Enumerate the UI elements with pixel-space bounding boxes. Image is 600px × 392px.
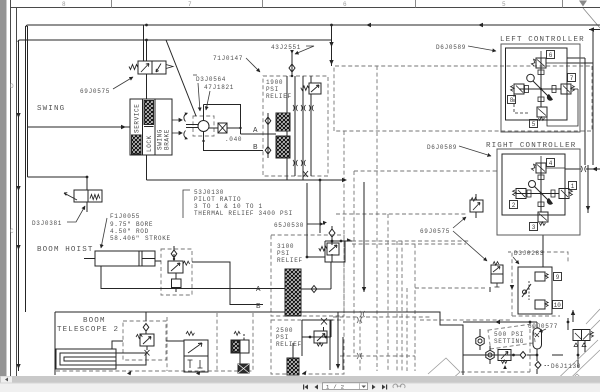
svg-text:7: 7: [188, 1, 192, 8]
svg-text:5: 5: [532, 121, 536, 128]
svg-text:RIGHT CONTROLLER: RIGHT CONTROLLER: [486, 142, 576, 150]
svg-text:4: 4: [549, 160, 553, 167]
svg-text:2500: 2500: [276, 327, 293, 334]
svg-text:B: B: [253, 144, 258, 152]
svg-text:D6J0589: D6J0589: [427, 144, 457, 151]
svg-text:47J1821: 47J1821: [204, 84, 234, 91]
svg-text:RELIEF: RELIEF: [266, 93, 292, 100]
svg-text:2: 2: [512, 202, 516, 209]
svg-text:SERVICE: SERVICE: [134, 104, 141, 133]
svg-text:69J0575: 69J0575: [420, 228, 450, 235]
svg-text:D3J0564: D3J0564: [196, 76, 226, 83]
svg-text:D3J0283: D3J0283: [514, 250, 544, 257]
svg-text:SWING: SWING: [37, 105, 65, 113]
svg-text:LOCK: LOCK: [146, 135, 153, 152]
svg-text:STROKE: STROKE: [145, 235, 171, 242]
svg-text:RELIEF: RELIEF: [277, 257, 303, 264]
svg-text:A: A: [253, 127, 258, 135]
svg-text:8: 8: [510, 97, 514, 104]
svg-text:.040: .040: [225, 136, 242, 143]
svg-text:BOOM: BOOM: [83, 317, 106, 325]
svg-text:69J0575: 69J0575: [80, 88, 110, 95]
svg-text:71J0147: 71J0147: [213, 55, 243, 62]
svg-text:SETTING: SETTING: [494, 338, 524, 345]
svg-text:1 / 2: 1 / 2: [326, 383, 345, 390]
svg-text:43J2551: 43J2551: [271, 44, 301, 51]
svg-text:65J0530: 65J0530: [274, 222, 304, 229]
svg-text:6: 6: [549, 52, 553, 59]
svg-text:C: C: [10, 228, 14, 235]
svg-text:BORE: BORE: [136, 221, 153, 228]
svg-text:9: 9: [556, 274, 560, 281]
svg-text:D: D: [10, 83, 14, 90]
svg-text:6: 6: [343, 1, 347, 8]
svg-text:ROD: ROD: [136, 228, 149, 235]
svg-text:1: 1: [571, 183, 575, 190]
svg-text:3: 3: [532, 224, 536, 231]
svg-text:PSI: PSI: [276, 334, 289, 341]
svg-text:5: 5: [502, 1, 506, 8]
svg-text:3100: 3100: [277, 243, 294, 250]
svg-text:THERMAL RELIEF 3400 PSI: THERMAL RELIEF 3400 PSI: [194, 210, 293, 217]
svg-text:7: 7: [570, 75, 574, 82]
svg-text:B: B: [256, 303, 261, 311]
svg-text:PSI: PSI: [277, 250, 290, 257]
svg-text:8: 8: [62, 1, 66, 8]
svg-text:3 TO 1 & 10 TO 1: 3 TO 1 & 10 TO 1: [194, 203, 263, 210]
svg-text:PSI: PSI: [266, 86, 279, 93]
svg-text:TELESCOPE 2: TELESCOPE 2: [57, 326, 119, 334]
svg-text:1900: 1900: [266, 79, 283, 86]
svg-text:D3J0381: D3J0381: [32, 220, 62, 227]
svg-text:BOOM HOIST: BOOM HOIST: [37, 246, 94, 254]
svg-text:D6J1130: D6J1130: [551, 363, 581, 370]
svg-text:500 PSI: 500 PSI: [494, 331, 524, 338]
svg-text:RELIEF: RELIEF: [276, 341, 302, 348]
svg-text:F1J0055: F1J0055: [110, 213, 140, 220]
svg-text:53J0130: 53J0130: [194, 189, 224, 196]
svg-text:SWING: SWING: [157, 129, 164, 150]
svg-text:4.50": 4.50": [110, 228, 132, 235]
svg-text:69J0577: 69J0577: [528, 323, 558, 330]
svg-text:9.75": 9.75": [110, 221, 132, 228]
svg-text:10: 10: [554, 302, 562, 309]
svg-text:D6J0589: D6J0589: [436, 44, 466, 51]
svg-text:BRAKE: BRAKE: [164, 129, 171, 150]
svg-text:LEFT CONTROLLER: LEFT CONTROLLER: [500, 36, 585, 44]
svg-text:A: A: [256, 286, 261, 294]
svg-text:PILOT RATIO: PILOT RATIO: [194, 196, 241, 203]
svg-text:58.406": 58.406": [110, 235, 140, 242]
